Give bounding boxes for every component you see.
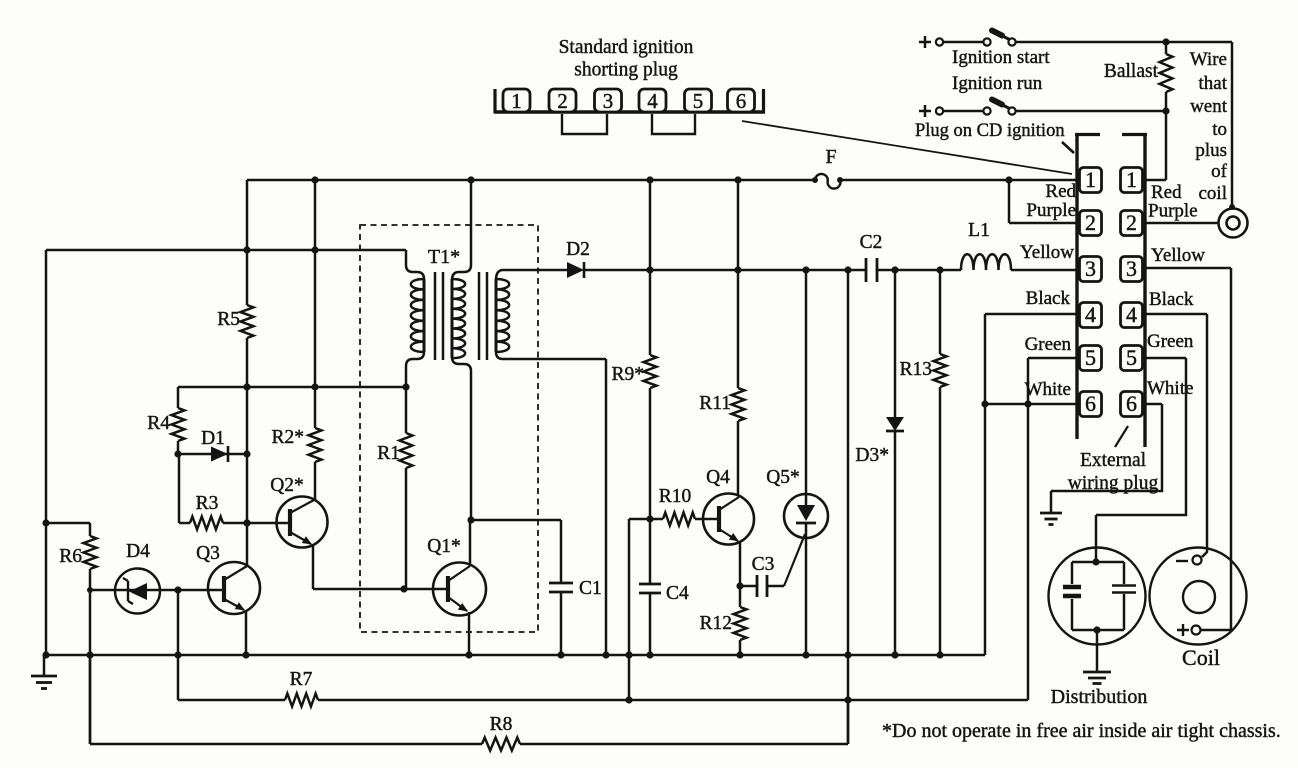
svg-text:External: External (1080, 450, 1147, 471)
svg-text:of: of (1211, 161, 1228, 182)
svg-text:Ignition start: Ignition start (952, 47, 1050, 68)
svg-text:R2*: R2* (271, 427, 304, 448)
svg-text:D1: D1 (201, 428, 225, 449)
svg-text:Green: Green (1147, 331, 1194, 352)
svg-text:D4: D4 (126, 541, 150, 562)
svg-text:Green: Green (1025, 334, 1072, 355)
svg-text:5: 5 (1085, 345, 1096, 370)
svg-text:Purple: Purple (1148, 201, 1198, 222)
svg-text:D3*: D3* (855, 445, 889, 466)
svg-text:T1*: T1* (428, 246, 460, 268)
svg-text:2: 2 (557, 89, 568, 113)
svg-text:C1: C1 (579, 578, 602, 599)
svg-text:wiring plug: wiring plug (1068, 473, 1159, 494)
svg-text:Plug on CD ignition: Plug on CD ignition (915, 121, 1065, 141)
svg-text:Ignition run: Ignition run (952, 73, 1043, 94)
svg-text:R13: R13 (899, 359, 932, 380)
svg-text:Wire: Wire (1190, 49, 1227, 70)
svg-text:R10: R10 (659, 486, 692, 507)
svg-text:White: White (1025, 379, 1071, 400)
svg-text:3: 3 (603, 89, 614, 113)
svg-text:plus: plus (1195, 140, 1227, 161)
svg-text:R12: R12 (699, 613, 732, 634)
svg-text:5: 5 (1126, 345, 1137, 370)
svg-text:Q1*: Q1* (427, 536, 461, 557)
svg-text:4: 4 (1085, 302, 1096, 327)
svg-text:Standard ignition: Standard ignition (559, 37, 694, 58)
svg-text:White: White (1147, 378, 1193, 399)
svg-text:Q2*: Q2* (270, 475, 304, 496)
svg-text:Coil: Coil (1182, 645, 1220, 670)
svg-text:R4: R4 (147, 413, 170, 434)
svg-text:shorting plug: shorting plug (574, 60, 678, 81)
svg-text:C4: C4 (666, 583, 689, 604)
svg-text:Red: Red (1045, 181, 1076, 202)
svg-text:Q4: Q4 (706, 467, 730, 488)
svg-text:R6: R6 (59, 546, 82, 567)
svg-text:6: 6 (1126, 391, 1137, 416)
svg-text:Black: Black (1026, 288, 1071, 309)
svg-text:6: 6 (1085, 391, 1096, 416)
svg-text:C3: C3 (752, 554, 775, 575)
svg-text:that: that (1199, 73, 1228, 94)
svg-text:*Do not operate in free air in: *Do not operate in free air inside air t… (882, 720, 1281, 742)
svg-text:D2: D2 (566, 239, 590, 260)
svg-text:R7: R7 (290, 669, 313, 690)
svg-text:1: 1 (1126, 167, 1137, 192)
svg-text:Q5*: Q5* (766, 467, 800, 488)
svg-text:4: 4 (647, 89, 658, 113)
svg-text:R1: R1 (377, 443, 400, 464)
svg-text:Ballast: Ballast (1104, 61, 1159, 82)
svg-text:Yellow: Yellow (1020, 242, 1074, 263)
svg-text:R3: R3 (196, 493, 219, 514)
svg-text:R5: R5 (217, 309, 240, 330)
svg-text:6: 6 (736, 89, 747, 113)
svg-text:Distribution: Distribution (1051, 686, 1148, 708)
svg-text:3: 3 (1085, 256, 1096, 281)
svg-text:Yellow: Yellow (1151, 245, 1205, 266)
svg-text:1: 1 (1085, 167, 1096, 192)
svg-text:Q3: Q3 (196, 543, 220, 564)
svg-text:R9*: R9* (611, 364, 644, 385)
svg-text:Purple: Purple (1026, 200, 1076, 221)
svg-text:5: 5 (693, 89, 704, 113)
svg-text:4: 4 (1126, 302, 1137, 327)
svg-text:3: 3 (1126, 256, 1137, 281)
svg-text:2: 2 (1085, 210, 1096, 235)
svg-text:R8: R8 (490, 714, 513, 735)
svg-text:2: 2 (1126, 210, 1137, 235)
svg-text:went: went (1190, 96, 1228, 117)
svg-text:1: 1 (511, 89, 522, 113)
svg-text:R11: R11 (699, 393, 731, 414)
svg-text:coil: coil (1199, 183, 1228, 204)
svg-text:L1: L1 (968, 220, 990, 241)
svg-text:to: to (1212, 119, 1227, 140)
svg-text:Black: Black (1149, 289, 1194, 310)
svg-text:C2: C2 (860, 232, 883, 253)
svg-text:F: F (825, 146, 836, 168)
